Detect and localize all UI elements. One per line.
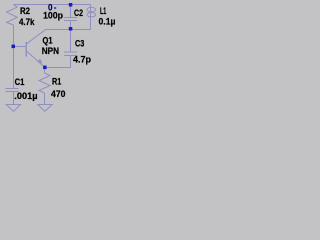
svg-text:4.7k: 4.7k [19,17,35,27]
svg-text:.001µ: .001µ [14,91,37,101]
svg-text:R2: R2 [20,6,30,16]
svg-text:R1: R1 [52,76,61,86]
svg-text:C2: C2 [74,8,83,18]
svg-text:L1: L1 [100,6,106,16]
svg-text:C1: C1 [15,77,25,87]
svg-text:100p: 100p [43,10,63,20]
svg-text:470: 470 [51,89,66,99]
svg-text:4.7p: 4.7p [73,54,91,64]
svg-text:Q1: Q1 [43,36,53,46]
svg-text:NPN: NPN [42,46,59,56]
svg-text:C3: C3 [75,39,84,49]
svg-text:0.1µ: 0.1µ [99,17,116,27]
